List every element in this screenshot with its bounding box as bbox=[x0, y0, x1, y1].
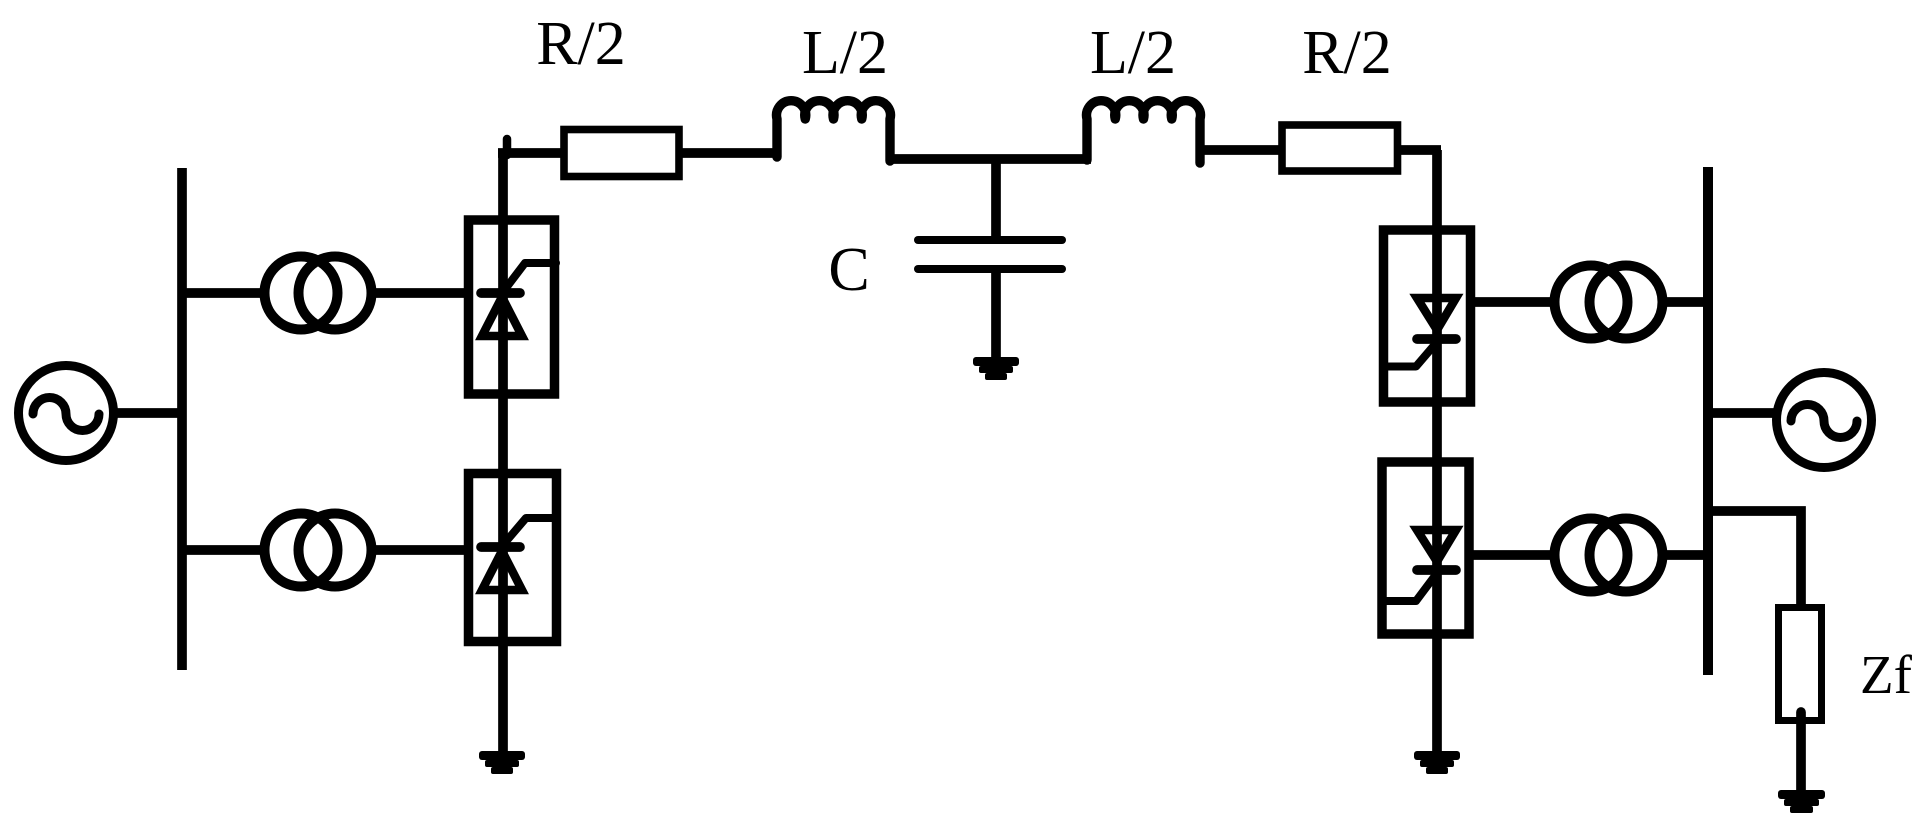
ground right converter bbox=[1414, 751, 1460, 774]
thyristor V1 cathode bar bbox=[481, 288, 520, 298]
thyristor V2 gate bbox=[503, 518, 557, 545]
AC source G2 (right) bbox=[1777, 373, 1872, 468]
wire T2 to valve V2 bbox=[371, 545, 470, 555]
inductor L2 (L/2 right) bbox=[1087, 101, 1201, 163]
wire T1 to valve V1 bbox=[371, 288, 470, 298]
thyristor V3 triangle bbox=[1417, 298, 1456, 330]
wire bus to AC source G2 bbox=[1708, 408, 1780, 418]
wire R1 to inductor L1 bbox=[682, 148, 777, 158]
thyristor V4 cathode bar bbox=[1417, 565, 1456, 575]
valve V2 box (lower left converter) bbox=[469, 474, 557, 642]
thyristor V4 triangle bbox=[1417, 530, 1456, 562]
wire bus to transformer T1 bbox=[182, 288, 268, 298]
svg-text:C: C bbox=[828, 236, 869, 304]
thyristor V1 triangle bbox=[482, 297, 522, 336]
ground left converter bbox=[479, 751, 525, 774]
wire L2 to resistor R2 bbox=[1196, 145, 1280, 155]
transformer T4 (lower right) bbox=[1555, 519, 1663, 592]
wire Zf to ground bbox=[1796, 712, 1806, 791]
svg-text:Zf: Zf bbox=[1860, 644, 1913, 705]
valve V4 box (lower right converter) bbox=[1382, 462, 1469, 634]
wire DC pole right (vertical through valves to ground) bbox=[1432, 150, 1442, 753]
svg-text:R/2: R/2 bbox=[1302, 19, 1392, 87]
svg-text:L/2: L/2 bbox=[802, 19, 888, 87]
AC source G1 (left) bbox=[19, 366, 114, 461]
wire L1 to center node bbox=[887, 154, 1091, 164]
right AC bus bbox=[1703, 167, 1713, 675]
resistor R1 (R/2 left) bbox=[564, 130, 679, 177]
wire top node to resistor R1 bbox=[498, 148, 563, 158]
thyristor V2 triangle bbox=[482, 551, 522, 590]
thyristor V3 gate bbox=[1386, 342, 1437, 367]
wire bus to fault impedance Zf bbox=[1708, 511, 1801, 606]
thyristor V4 gate bbox=[1384, 573, 1437, 601]
transformer T3 (upper right) bbox=[1555, 266, 1663, 339]
valve V3 box (upper right converter) bbox=[1384, 230, 1471, 402]
impedance Zf box bbox=[1779, 608, 1822, 721]
capacitor C bottom plate bbox=[918, 265, 1062, 273]
ground capacitor bbox=[973, 357, 1019, 380]
svg-text:R/2: R/2 bbox=[536, 10, 626, 78]
thyristor V2 cathode bar bbox=[481, 542, 520, 552]
wire V3 to transformer T3 bbox=[1470, 297, 1556, 307]
wire R2 to right DC pole bbox=[1398, 145, 1441, 155]
capacitor C lead bottom bbox=[991, 269, 1001, 358]
wire T4 to right bus bbox=[1662, 550, 1712, 560]
wire T3 to right bus bbox=[1662, 297, 1712, 307]
resistor R2 (R/2 right) bbox=[1282, 125, 1398, 171]
thyristor V1 gate bbox=[503, 263, 556, 292]
valve V1 box (upper left converter) bbox=[469, 220, 555, 394]
wire V4 to transformer T4 bbox=[1469, 550, 1552, 560]
wire DC pole left (vertical through valves to ground) bbox=[503, 139, 512, 155]
wire bus to transformer T2 bbox=[182, 545, 268, 555]
transformer T2 (lower left) bbox=[265, 514, 372, 587]
thyristor V3 cathode bar bbox=[1417, 334, 1456, 344]
wire G1 to left bus bbox=[110, 408, 186, 418]
svg-text:L/2: L/2 bbox=[1090, 19, 1176, 87]
inductor L1 (L/2 left) bbox=[777, 101, 891, 161]
ground Zf bbox=[1778, 790, 1825, 813]
capacitor C lead top bbox=[991, 156, 1001, 240]
transformer T1 (upper left) bbox=[265, 257, 372, 330]
capacitor C top plate bbox=[918, 236, 1062, 244]
left AC bus bbox=[177, 168, 187, 670]
